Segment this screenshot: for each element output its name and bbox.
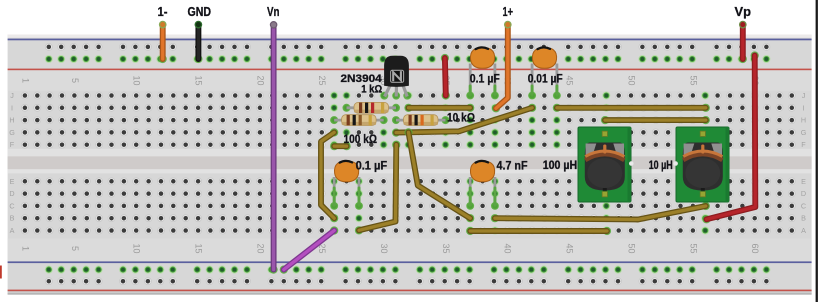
svg-text:100 µH: 100 µH xyxy=(543,160,578,172)
wire red rail to B56 (Vp) xyxy=(702,51,758,223)
top rail blue line xyxy=(8,39,812,41)
svg-text:15: 15 xyxy=(194,75,204,85)
wire W3 F31-A28 (olive) xyxy=(355,141,401,235)
svg-text:55: 55 xyxy=(688,75,698,85)
top power rail holes xyxy=(45,43,771,63)
svg-text:55: 55 xyxy=(688,243,698,253)
svg-text:1: 1 xyxy=(20,246,30,251)
svg-text:0.1 µF: 0.1 µF xyxy=(470,74,500,86)
wire W4 G31-I42 (olive) xyxy=(392,104,536,137)
svg-text:60: 60 xyxy=(750,243,760,253)
svg-text:A: A xyxy=(10,226,15,235)
bottom rail blue line xyxy=(8,261,812,263)
svg-text:F: F xyxy=(801,140,806,149)
svg-text:5: 5 xyxy=(70,246,80,251)
svg-text:Vp: Vp xyxy=(735,5,752,19)
svg-text:E: E xyxy=(801,177,806,186)
main grid holes xyxy=(21,91,796,234)
wire GND (black) xyxy=(194,26,202,64)
svg-text:1-: 1- xyxy=(158,5,168,19)
wire W5 G32-B37 (olive) xyxy=(404,128,474,222)
window border right xyxy=(816,0,818,302)
wire W10 B39-C56 (olive) xyxy=(491,202,710,222)
svg-text:35: 35 xyxy=(441,243,451,253)
wire Vn (purple) xyxy=(270,26,278,274)
svg-text:G: G xyxy=(801,128,807,137)
svg-text:15: 15 xyxy=(194,243,204,253)
resistor R3 100 k&#937; xyxy=(330,115,387,126)
wire W9 A37-A48 (olive) xyxy=(466,227,611,235)
wire Vp top cap xyxy=(740,21,746,27)
wire 1+ top cap xyxy=(505,21,511,27)
svg-text:10: 10 xyxy=(132,75,142,85)
svg-text:B: B xyxy=(10,214,15,223)
svg-text:4.7 nF: 4.7 nF xyxy=(497,160,528,172)
svg-text:B: B xyxy=(801,214,806,223)
svg-text:C: C xyxy=(9,201,14,210)
svg-text:1: 1 xyxy=(20,78,30,83)
wire GND top cap xyxy=(195,21,201,27)
top rail red line xyxy=(8,69,812,71)
svg-text:D: D xyxy=(9,189,14,198)
resistor R2 10 k&#937; xyxy=(392,115,449,126)
capacitor C3 4.7 nF xyxy=(466,161,498,210)
svg-text:40: 40 xyxy=(503,243,513,253)
inductor L1 100 &#181;H xyxy=(578,127,631,202)
svg-text:25: 25 xyxy=(317,75,327,85)
svg-text:G: G xyxy=(9,128,15,137)
wire W8 H48-H56 (olive) xyxy=(601,116,710,124)
svg-text:I: I xyxy=(803,103,805,112)
svg-text:45: 45 xyxy=(565,75,575,85)
svg-text:H: H xyxy=(9,116,14,125)
wire 1- (orange) xyxy=(159,26,167,64)
svg-text:I: I xyxy=(11,103,13,112)
resistor R1 1 k&#937; xyxy=(343,102,400,113)
svg-text:H: H xyxy=(801,116,806,125)
wire W11 A26-bottom rail (magenta) xyxy=(280,226,339,273)
svg-text:Vn: Vn xyxy=(267,5,280,19)
svg-text:D: D xyxy=(801,189,806,198)
svg-text:F: F xyxy=(10,140,15,149)
wire red top-rail to J35 xyxy=(441,54,450,100)
red mark left edge xyxy=(0,266,2,279)
svg-text:10 µH: 10 µH xyxy=(649,160,673,172)
svg-text:0.1 µF: 0.1 µF xyxy=(356,160,388,172)
svg-text:J: J xyxy=(802,91,806,100)
wire Vp (red) xyxy=(739,26,747,64)
svg-text:GND: GND xyxy=(188,5,212,19)
svg-text:50: 50 xyxy=(626,75,636,85)
wire Vn top cap xyxy=(270,22,276,28)
svg-text:20: 20 xyxy=(255,243,265,253)
inductor L2 10 &#181;H xyxy=(676,127,729,202)
svg-text:20: 20 xyxy=(255,75,265,85)
svg-text:J: J xyxy=(10,91,14,100)
column numbers xyxy=(20,75,760,253)
svg-text:1 kΩ: 1 kΩ xyxy=(361,83,382,95)
svg-text:50: 50 xyxy=(626,243,636,253)
svg-text:0.01 µF: 0.01 µF xyxy=(528,74,563,86)
svg-text:E: E xyxy=(10,177,15,186)
row letters xyxy=(9,91,807,235)
svg-text:C: C xyxy=(801,201,806,210)
capacitor C4 0.1 &#181;F xyxy=(330,161,363,210)
wire W1 G26-B26 (olive) xyxy=(321,128,338,222)
wire 1+ (orange) xyxy=(492,26,508,113)
svg-text:45: 45 xyxy=(565,243,575,253)
wire W7 I44-I56 (olive) xyxy=(553,104,710,112)
transistor Q1 2N3904 xyxy=(381,56,412,100)
svg-text:100 kΩ: 100 kΩ xyxy=(344,134,378,146)
channel notch xyxy=(673,161,678,166)
svg-text:1+: 1+ xyxy=(503,5,514,19)
svg-text:30: 30 xyxy=(379,243,389,253)
svg-text:10 kΩ: 10 kΩ xyxy=(447,113,475,125)
capacitor C1 0.1 &#181;F xyxy=(466,47,498,99)
capacitor C2 0.01 &#181;F xyxy=(528,47,561,99)
wire 1- top cap xyxy=(160,21,166,27)
bottom rail red line xyxy=(8,290,812,292)
svg-text:A: A xyxy=(801,226,806,235)
center channel xyxy=(8,149,812,174)
wire W6 I32-I37 (olive) xyxy=(404,104,474,112)
channel notch xyxy=(629,161,634,166)
svg-text:10: 10 xyxy=(132,243,142,253)
wire W2 F26-F27 (olive) xyxy=(330,142,351,150)
bottom power rail holes xyxy=(45,266,771,286)
svg-text:5: 5 xyxy=(70,78,80,83)
